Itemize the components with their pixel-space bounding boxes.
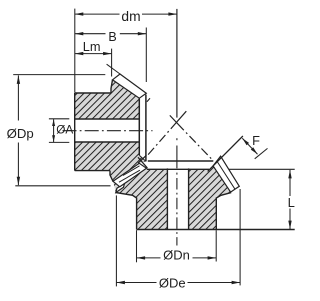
OA top arrowhead bbox=[52, 119, 55, 126]
OA bottom tick bbox=[49, 141, 69, 143]
pinion front face line bbox=[138, 98, 140, 155]
pinion bottom step bbox=[110, 171, 113, 182]
pinion front tip face line bbox=[145, 95, 147, 162]
gear right tooth tip land (white band) bbox=[213, 156, 239, 192]
ODp top extension line bbox=[13, 74, 105, 76]
pitch cone line lower-right continuation bbox=[184, 130, 214, 161]
dimension L line bbox=[289, 170, 291, 196]
dimension B right extension bbox=[145, 28, 147, 83]
pinion bore bottom line bbox=[75, 141, 140, 143]
pinion bore top line bbox=[75, 118, 140, 120]
gear left rim hatched section bbox=[113, 168, 167, 229]
svg-text:ØDp: ØDp bbox=[7, 126, 34, 141]
mesh tooth edge crossing (pinion flank) bbox=[138, 157, 147, 168]
pitch cone line apex dash upper-left bbox=[170, 115, 184, 130]
gear right rim hatched section bbox=[189, 156, 240, 229]
ODn right extension bbox=[215, 230, 217, 261]
OA top tick bbox=[49, 118, 69, 120]
dimension Lm right extension bbox=[111, 49, 113, 77]
pinion left face bbox=[74, 93, 76, 171]
pinion front lower chamfer bbox=[139, 155, 146, 161]
ODe right arrowhead bbox=[232, 281, 241, 284]
dimension F extension line 2 bbox=[255, 148, 268, 158]
gear left tooth edge seen through band bbox=[123, 166, 140, 176]
centerline gear axis mesh segment bbox=[176, 146, 178, 169]
dimension OA line bbox=[53, 119, 55, 142]
mesh tooth edge crossing (gear flank) bbox=[138, 155, 146, 163]
Lm left arrowhead bbox=[75, 52, 84, 55]
pinion hub bottom edge bbox=[75, 170, 110, 172]
ODp top arrowhead bbox=[17, 75, 20, 84]
svg-text:B: B bbox=[108, 30, 116, 44]
dm right arrowhead bbox=[168, 12, 177, 15]
svg-text:ØDe: ØDe bbox=[159, 275, 186, 290]
gear right tooth flank edge and F extension line bbox=[208, 136, 243, 171]
dimension dm left extension bbox=[74, 9, 76, 93]
tooth tip edge extension line bbox=[107, 64, 120, 74]
centerline gear axis dot at bore top bbox=[176, 173, 178, 175]
dimension B line bbox=[75, 33, 106, 35]
svg-text:ØDn: ØDn bbox=[163, 247, 190, 262]
dimension ODe line bbox=[116, 282, 156, 284]
L top arrowhead bbox=[288, 170, 291, 179]
gear hub left face bbox=[116, 193, 137, 230]
gear bore right line bbox=[188, 168, 190, 229]
B left arrowhead bbox=[75, 32, 84, 35]
ODe left arrowhead bbox=[116, 281, 125, 284]
dimension ODp line bbox=[17, 75, 19, 120]
ODn right arrowhead bbox=[208, 256, 217, 259]
gear right tooth edge inside band bbox=[217, 161, 235, 189]
ODp bottom extension line bbox=[15, 185, 110, 187]
gear hub right face bbox=[216, 193, 231, 230]
ODe left extension bbox=[115, 195, 117, 286]
pinion lower body hatched section bbox=[75, 142, 146, 181]
gear bore left line bbox=[166, 168, 168, 229]
pitch cone line lower-left continuation bbox=[148, 129, 171, 155]
pinion hub top edge bbox=[75, 92, 111, 94]
F upper arrowhead bbox=[242, 138, 249, 145]
centerline gear axis dot below apex bbox=[176, 138, 178, 140]
ODn left arrowhead bbox=[137, 256, 146, 259]
dimension Lm line bbox=[75, 53, 112, 55]
ODn left extension bbox=[136, 230, 138, 262]
centerline gear axis lower bbox=[176, 178, 178, 246]
dimension F line bbox=[242, 138, 257, 154]
svg-text:ØA: ØA bbox=[56, 122, 73, 136]
dimension ODn line bbox=[137, 257, 161, 259]
svg-text:L: L bbox=[288, 195, 295, 210]
svg-text:F: F bbox=[252, 133, 260, 148]
centerline gear axis upper solid (dm extension) bbox=[176, 9, 178, 118]
pitch cone line apex dash upper-right bbox=[171, 111, 187, 129]
gear hub bottom edge and L bottom extension bbox=[137, 229, 295, 231]
dm left arrowhead bbox=[75, 12, 84, 15]
F lower arrowhead bbox=[251, 147, 258, 154]
ODp bottom arrowhead bbox=[17, 177, 20, 186]
OA bottom arrowhead bbox=[52, 135, 55, 142]
dimension dm line bbox=[75, 13, 120, 15]
pinion top step bbox=[111, 80, 113, 93]
ODe right extension bbox=[239, 189, 241, 285]
L bottom arrowhead bbox=[288, 221, 291, 230]
centerline pinion axis bbox=[63, 130, 153, 132]
pinion top tooth tip land (white band) bbox=[113, 74, 147, 98]
pinion bottom tooth tip land (white band) bbox=[113, 163, 147, 187]
svg-text:dm: dm bbox=[121, 9, 140, 24]
gear top land line bbox=[148, 160, 213, 162]
small tooth edge segment bbox=[147, 98, 150, 102]
gear front face line and L top extension bbox=[147, 168, 209, 170]
svg-text:Lm: Lm bbox=[83, 39, 101, 54]
pinion upper body hatched section bbox=[75, 80, 140, 119]
Lm right arrowhead bbox=[103, 52, 112, 55]
gear left tooth tip land visible wedge (white band) bbox=[116, 183, 125, 192]
B right arrowhead bbox=[138, 32, 147, 35]
gear left tooth edge seen through band 2 bbox=[119, 170, 140, 182]
